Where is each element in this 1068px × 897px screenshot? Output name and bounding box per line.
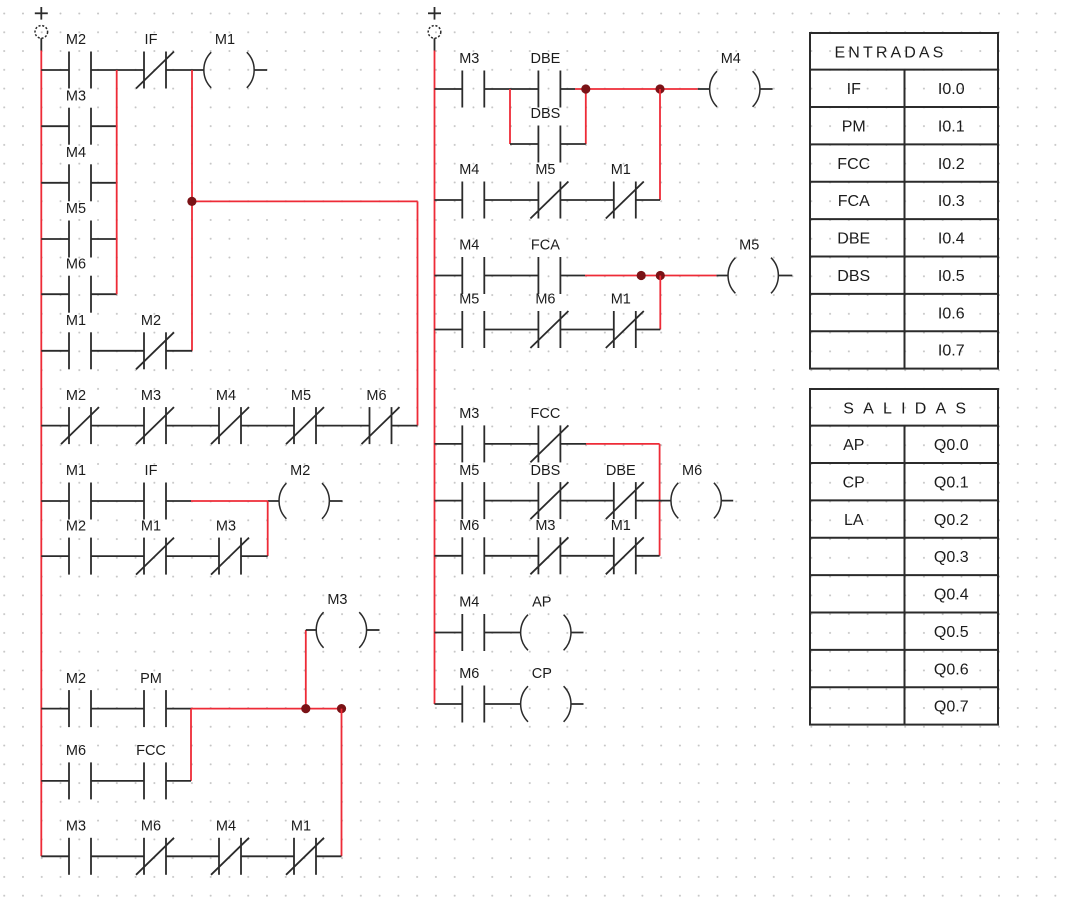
contact M5 (NO) rung4 col2 bbox=[459, 292, 484, 348]
contact M4 (NC) rung9 bbox=[211, 819, 249, 875]
svg-text:DBE: DBE bbox=[530, 51, 560, 67]
svg-text:LA: LA bbox=[844, 512, 864, 529]
svg-text:AP: AP bbox=[532, 595, 551, 611]
svg-text:FCC: FCC bbox=[530, 406, 560, 422]
wire rung7 col1 bbox=[41, 708, 191, 710]
contact PM (NO) rung7 bbox=[140, 671, 166, 727]
svg-text:Q0.6: Q0.6 bbox=[934, 661, 969, 678]
svg-text:Q0.5: Q0.5 bbox=[934, 624, 969, 641]
contact M6 (NO) parallel branch bbox=[66, 256, 91, 312]
contact M6 (NC) rung4 col2 bbox=[530, 292, 568, 348]
left power rail terminal (+) bbox=[35, 7, 48, 51]
svg-text:M4: M4 bbox=[721, 51, 741, 67]
contact M1 (NC) rung7 col2 bbox=[606, 518, 644, 574]
junction node rung7 b bbox=[337, 704, 346, 713]
contact M5 (NO) rung6 col2 bbox=[459, 463, 484, 519]
svg-text:M3: M3 bbox=[459, 406, 479, 422]
svg-text:FCC: FCC bbox=[837, 156, 870, 173]
contact DBS (NC) rung6 col2 bbox=[530, 463, 568, 519]
svg-text:M6: M6 bbox=[141, 819, 161, 835]
svg-text:DBE: DBE bbox=[606, 463, 636, 479]
contact M6 (NO) rung8 bbox=[66, 743, 91, 799]
svg-text:DBS: DBS bbox=[837, 268, 870, 285]
contact M2 (NO) rung7 bbox=[66, 671, 91, 727]
svg-text:PM: PM bbox=[140, 671, 162, 687]
wire into coil M3 bbox=[306, 629, 316, 631]
svg-text:M3: M3 bbox=[141, 388, 161, 404]
svg-text:M5: M5 bbox=[66, 201, 86, 217]
contact M6 (NC) rung3 bbox=[362, 388, 400, 444]
svg-text:M2: M2 bbox=[66, 32, 86, 48]
wire rung5 col2 bbox=[435, 443, 587, 445]
wire rung3 col1 bbox=[41, 425, 417, 427]
left power rail bbox=[40, 51, 42, 857]
contact IF (NC) rung1 bbox=[136, 32, 174, 88]
svg-text:PM: PM bbox=[842, 118, 866, 135]
svg-text:M6: M6 bbox=[459, 666, 479, 682]
contact FCC (NO) rung8 bbox=[136, 743, 166, 799]
svg-text:IF: IF bbox=[145, 463, 158, 479]
contact M2 (NC) rung2 bbox=[136, 313, 174, 369]
wire branch M6 col1 bbox=[41, 293, 116, 295]
wire rung8 col2 bbox=[435, 632, 584, 634]
contact M2 (NO) rung5 bbox=[66, 518, 91, 574]
ENTRADAS table bbox=[810, 33, 998, 369]
svg-text:M1: M1 bbox=[66, 313, 86, 329]
junction node rung1 col2 b bbox=[655, 84, 664, 93]
svg-text:I0.5: I0.5 bbox=[938, 268, 965, 285]
junction node rung7 a bbox=[301, 704, 310, 713]
wire rung7 col2 bbox=[435, 555, 660, 557]
wire: red vertical from rung1 to rung M1/M2 bbox=[191, 70, 193, 351]
svg-text:M2: M2 bbox=[66, 518, 86, 534]
svg-text:M4: M4 bbox=[459, 238, 479, 254]
coil M2 bbox=[279, 463, 329, 519]
coil AP bbox=[521, 595, 571, 651]
contact M3 (NO) rung5 col2 bbox=[459, 406, 484, 462]
contact M1 (NO) rung4 bbox=[66, 463, 91, 519]
wire rung2 col1 bbox=[41, 350, 192, 352]
contact M6 (NC) rung9 bbox=[136, 819, 174, 875]
contact FCA (NO) rung3 col2 bbox=[531, 238, 561, 294]
contact DBS (NO) branch bbox=[530, 106, 560, 162]
svg-text:M6: M6 bbox=[535, 292, 555, 308]
contact M3 (NC) rung7 col2 bbox=[530, 518, 568, 574]
svg-text:Q0.2: Q0.2 bbox=[934, 512, 969, 529]
right power rail bbox=[434, 51, 436, 705]
wire: red vertical to coil M3 bbox=[305, 630, 307, 709]
svg-text:I0.2: I0.2 bbox=[938, 156, 965, 173]
wire rung3 col2 bbox=[435, 275, 793, 277]
svg-text:AP: AP bbox=[843, 437, 864, 454]
contact FCC (NC) rung5 col2 bbox=[530, 406, 568, 462]
contact M6 (NO) rung9 col2 bbox=[459, 666, 484, 722]
wire rung4 col1 bbox=[41, 500, 342, 502]
coil M4 bbox=[710, 51, 760, 107]
wire: red vertical rung1-rung2 col2 bbox=[659, 89, 661, 200]
wire rung4 col2 bbox=[435, 329, 661, 331]
wire: red segment rung7 bbox=[191, 708, 342, 710]
svg-text:M6: M6 bbox=[366, 388, 386, 404]
wire rung5 col1 bbox=[41, 555, 267, 557]
svg-text:I0.6: I0.6 bbox=[938, 305, 965, 322]
svg-text:Q0.4: Q0.4 bbox=[934, 587, 969, 604]
contact M6 (NO) rung7 col2 bbox=[459, 518, 484, 574]
contact M1 (NC) rung4 col2 bbox=[606, 292, 644, 348]
wire: red vertical rung4-rung5 bbox=[267, 501, 269, 556]
svg-text:DBS: DBS bbox=[530, 463, 560, 479]
contact M1 (NO) rung2 bbox=[66, 313, 91, 369]
wire: red vertical right bus col1 bbox=[417, 201, 419, 425]
svg-text:FCA: FCA bbox=[838, 193, 870, 210]
contact M1 (NC) rung5 bbox=[136, 518, 174, 574]
svg-text:I0.4: I0.4 bbox=[938, 231, 965, 248]
svg-text:FCA: FCA bbox=[531, 238, 560, 254]
svg-text:Q0.0: Q0.0 bbox=[934, 437, 969, 454]
wire: red vertical DBS branch left bbox=[509, 89, 511, 144]
svg-text:M1: M1 bbox=[611, 162, 631, 178]
contact M3 (NO) rung9 bbox=[66, 819, 91, 875]
wire branch M3 col1 bbox=[41, 125, 116, 127]
contact M2 (NC) rung3 bbox=[61, 388, 99, 444]
coil CP bbox=[521, 666, 571, 722]
svg-text:M3: M3 bbox=[459, 51, 479, 67]
wire stub after coil M3 bbox=[367, 629, 380, 631]
junction node rung3 col2 b bbox=[656, 271, 665, 280]
svg-text:FCC: FCC bbox=[136, 743, 166, 759]
contact M4 (NO) rung2 col2 bbox=[459, 162, 484, 218]
wire rung9 col2 bbox=[435, 703, 584, 705]
wire DBS branch bbox=[510, 143, 586, 145]
wire rung2 col2 bbox=[435, 199, 661, 201]
svg-text:M5: M5 bbox=[459, 292, 479, 308]
wire: red segment rung5 col2 bbox=[586, 443, 660, 445]
wire: red segment rung1 col2 bbox=[575, 88, 698, 90]
svg-text:M2: M2 bbox=[66, 671, 86, 687]
svg-text:M1: M1 bbox=[66, 463, 86, 479]
junction node col1 bbox=[187, 197, 196, 206]
svg-text:M1: M1 bbox=[291, 819, 311, 835]
svg-text:M5: M5 bbox=[739, 238, 759, 254]
coil M1 bbox=[204, 32, 254, 88]
coil M6 bbox=[671, 463, 721, 519]
svg-text:M6: M6 bbox=[682, 463, 702, 479]
wire: red vertical DBS branch right bbox=[585, 89, 587, 144]
svg-text:Q0.1: Q0.1 bbox=[934, 474, 969, 491]
svg-text:ENTRADAS: ENTRADAS bbox=[835, 44, 947, 61]
svg-text:M1: M1 bbox=[611, 518, 631, 534]
svg-text:M1: M1 bbox=[215, 32, 235, 48]
wire: red horizontal to right bus bbox=[192, 200, 418, 202]
svg-text:M4: M4 bbox=[459, 162, 479, 178]
svg-text:DBE: DBE bbox=[837, 231, 870, 248]
svg-text:IF: IF bbox=[145, 32, 158, 48]
contact M5 (NO) parallel branch bbox=[66, 201, 91, 257]
contact M3 (NC) rung3 bbox=[136, 388, 174, 444]
contact M3 (NC) rung5 bbox=[211, 518, 249, 574]
svg-text:DBS: DBS bbox=[530, 106, 560, 122]
svg-text:M5: M5 bbox=[459, 463, 479, 479]
svg-text:M2: M2 bbox=[66, 388, 86, 404]
svg-text:SALIDAS: SALIDAS bbox=[843, 400, 975, 417]
svg-text:I0.1: I0.1 bbox=[938, 118, 965, 135]
contact M3 (NO) parallel branch bbox=[66, 88, 91, 144]
svg-text:CP: CP bbox=[843, 474, 865, 491]
contact M3 (NO) rung1 col2 bbox=[459, 51, 484, 107]
svg-text:M1: M1 bbox=[141, 518, 161, 534]
junction node rung1 col2 a bbox=[581, 84, 590, 93]
wire rung1 col1 bbox=[41, 69, 267, 71]
svg-text:I0.0: I0.0 bbox=[938, 81, 965, 98]
svg-text:Q0.3: Q0.3 bbox=[934, 549, 969, 566]
contact M1 (NC) rung9 bbox=[286, 819, 324, 875]
SALIDAS table bbox=[810, 389, 998, 725]
svg-text:M4: M4 bbox=[66, 145, 86, 161]
contact M1 (NC) rung2 col2 bbox=[606, 162, 644, 218]
svg-text:CP: CP bbox=[532, 666, 552, 682]
contact M5 (NC) rung3 bbox=[286, 388, 324, 444]
svg-text:M4: M4 bbox=[216, 819, 236, 835]
contact M4 (NC) rung3 bbox=[211, 388, 249, 444]
svg-text:M2: M2 bbox=[290, 463, 310, 479]
svg-text:IF: IF bbox=[847, 81, 861, 98]
contact M2 (NO) rung1 bbox=[66, 32, 91, 88]
wire: red vertical rung7-rung9 bbox=[341, 709, 343, 857]
svg-text:M1: M1 bbox=[611, 292, 631, 308]
contact M4 (NO) parallel branch bbox=[66, 145, 91, 201]
contact M4 (NO) rung8 col2 bbox=[459, 595, 484, 651]
coil M5 bbox=[728, 238, 778, 294]
svg-text:M3: M3 bbox=[535, 518, 555, 534]
svg-text:I0.3: I0.3 bbox=[938, 193, 965, 210]
wire branch M4 col1 bbox=[41, 182, 116, 184]
wire: red vertical rung3-rung4 col2 bbox=[659, 276, 661, 330]
contact DBE (NC) rung6 col2 bbox=[606, 463, 644, 519]
svg-text:M3: M3 bbox=[66, 819, 86, 835]
contact M5 (NC) rung2 col2 bbox=[530, 162, 568, 218]
wire rung9 col1 bbox=[41, 855, 341, 857]
svg-text:M4: M4 bbox=[459, 595, 479, 611]
wire: red vertical branch bus col1 bbox=[116, 70, 118, 294]
junction node rung3 col2 a bbox=[637, 271, 646, 280]
wire: red vertical rung5-rung7 col2 bbox=[659, 444, 661, 556]
svg-text:M3: M3 bbox=[66, 88, 86, 104]
wire branch M5 col1 bbox=[41, 238, 116, 240]
svg-text:M3: M3 bbox=[327, 592, 347, 608]
svg-text:M6: M6 bbox=[66, 743, 86, 759]
wire rung8 col1 bbox=[41, 780, 191, 782]
svg-text:M5: M5 bbox=[535, 162, 555, 178]
svg-text:M4: M4 bbox=[216, 388, 236, 404]
svg-text:M6: M6 bbox=[66, 256, 86, 272]
svg-text:M3: M3 bbox=[216, 518, 236, 534]
contact M4 (NO) rung3 col2 bbox=[459, 238, 484, 294]
contact IF (NO) rung4 bbox=[144, 463, 166, 519]
contact DBE (NO) rung1 col2 bbox=[530, 51, 560, 107]
svg-text:M6: M6 bbox=[459, 518, 479, 534]
wire rung6 col2 bbox=[435, 500, 734, 502]
wire: red segment rung4 bbox=[191, 500, 268, 502]
coil M3 bbox=[316, 592, 366, 648]
svg-text:I0.7: I0.7 bbox=[938, 343, 965, 360]
svg-text:M5: M5 bbox=[291, 388, 311, 404]
wire: red vertical rung7-rung8 bbox=[190, 709, 192, 781]
svg-text:Q0.7: Q0.7 bbox=[934, 699, 969, 716]
svg-text:M2: M2 bbox=[141, 313, 161, 329]
wire rung1 col2 bbox=[435, 88, 773, 90]
right power rail terminal (+) bbox=[428, 7, 441, 51]
wire: red segment rung3 col2 bbox=[585, 275, 716, 277]
